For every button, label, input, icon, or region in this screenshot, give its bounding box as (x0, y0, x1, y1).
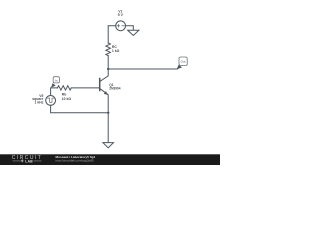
In flag pointer (51, 83, 56, 88)
svg-text:Out: Out (181, 59, 186, 63)
Out flag (179, 57, 187, 66)
footer file info (56, 155, 96, 163)
svg-text:10 kΩ: 10 kΩ (62, 97, 72, 101)
voltage source V1 (116, 21, 126, 31)
node emitter junction (107, 112, 109, 114)
wire V5 top to Rb (51, 88, 58, 96)
node collector junction (107, 68, 109, 70)
wire Rb to base (71, 87, 99, 89)
In flag (53, 77, 59, 83)
svg-text:LAB: LAB (25, 160, 33, 164)
svg-text:1 kHz: 1 kHz (35, 100, 44, 104)
svg-text:In: In (55, 78, 58, 82)
label Q1 value (109, 83, 120, 90)
svg-text:1 kΩ: 1 kΩ (112, 49, 120, 53)
wire collector node to Out (108, 68, 177, 70)
wire RC to collector node (107, 56, 109, 69)
wire V1 minus lead to ground (126, 26, 134, 31)
wire emitter node to ground (107, 113, 109, 143)
label V1 value (118, 10, 124, 17)
label RC value (112, 45, 120, 53)
transistor Q1 (100, 69, 109, 113)
svg-text:http://circuitlab.com/cqq2p85: http://circuitlab.com/cqq2p85 (56, 159, 95, 163)
ground (V1) (128, 30, 139, 35)
Out flag pointer (177, 65, 183, 70)
wire V1 plus lead to RC (108, 26, 116, 43)
wire V5 bottom to emitter node (51, 105, 109, 113)
svg-text:Rb: Rb (62, 92, 67, 96)
resistor Rb (58, 86, 72, 90)
voltage source V5 (square) (46, 96, 56, 106)
svg-text:2N3904: 2N3904 (109, 87, 120, 91)
CircuitLab logo (12, 155, 42, 164)
svg-text:5 V: 5 V (118, 13, 124, 17)
footer bar (0, 154, 220, 165)
resistor RC (106, 43, 111, 56)
label V5 value (32, 94, 43, 105)
ground (bottom) (103, 143, 114, 148)
label Rb value (62, 92, 72, 100)
